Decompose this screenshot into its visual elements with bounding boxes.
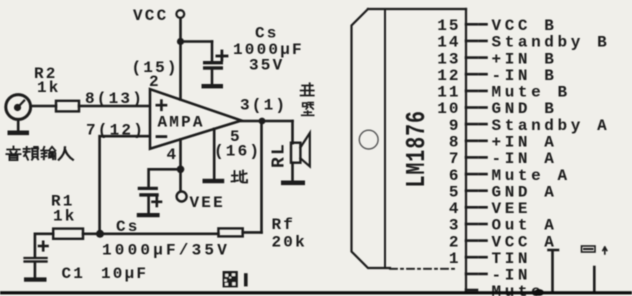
- pin 4 VEE: [449, 200, 531, 218]
- dash-dot package bottom: [390, 268, 458, 270]
- svg-text:15: 15: [437, 17, 460, 35]
- ground (bypass cap): [137, 213, 160, 217]
- svg-text:-IN A: -IN A: [492, 150, 558, 168]
- label 音频输入 (audio input): [6, 147, 72, 161]
- wire jack to R2: [31, 105, 57, 108]
- svg-text:10µF: 10µF: [101, 265, 148, 283]
- svg-text:TIN: TIN: [492, 250, 532, 268]
- svg-text:20k: 20k: [272, 234, 307, 252]
- pin 11 Mute B: [437, 84, 570, 102]
- svg-text:6: 6: [449, 167, 461, 185]
- pin 5 GND line: [213, 129, 216, 179]
- svg-text:10: 10: [437, 100, 460, 118]
- pin 12 -IN B: [437, 67, 557, 85]
- capacitor C1: [23, 242, 47, 278]
- pin row Mute: [466, 283, 544, 296]
- stray blob on border: [534, 289, 544, 296]
- svg-text:LM1876: LM1876: [404, 110, 433, 187]
- pin 7 -IN A: [449, 150, 558, 168]
- resistor R2: [56, 101, 79, 112]
- pin label (15) 2: [132, 59, 179, 91]
- pin 4 line: [179, 140, 182, 191]
- pin row -IN: [466, 267, 531, 285]
- svg-text:+IN A: +IN A: [492, 134, 558, 152]
- wire R1 left to C1: [35, 234, 53, 257]
- pin 9 Standby A: [449, 117, 610, 135]
- wire -IN: [100, 136, 149, 234]
- svg-text:5: 5: [449, 183, 461, 201]
- svg-text:2: 2: [449, 233, 461, 251]
- ground (pin5): [203, 179, 225, 183]
- IC package LM1876 outline: [352, 9, 467, 268]
- svg-text:1000µF/35V: 1000µF/35V: [102, 242, 230, 260]
- pin 6 Mute A: [449, 167, 571, 185]
- VEE terminal: [177, 192, 225, 213]
- svg-text:12: 12: [437, 67, 460, 85]
- svg-text:3: 3: [449, 217, 461, 235]
- svg-text:Mute B: Mute B: [492, 84, 571, 102]
- svg-text:14: 14: [437, 34, 460, 52]
- svg-text:RL: RL: [270, 142, 290, 168]
- speaker RL: [270, 133, 310, 181]
- wire VCC vertical: [179, 18, 182, 99]
- wire bottom R1 to Rf: [83, 233, 218, 236]
- svg-text:Out A: Out A: [492, 217, 558, 235]
- svg-text:7(12): 7(12): [86, 122, 145, 140]
- svg-text:VEE: VEE: [190, 194, 225, 212]
- stray glyph 堡: [302, 103, 314, 116]
- svg-text:3(1): 3(1): [240, 97, 287, 115]
- stray mark T line: [549, 250, 559, 292]
- svg-text:Cs: Cs: [116, 218, 140, 236]
- svg-text:GND A: GND A: [492, 183, 558, 201]
- svg-text:GND B: GND B: [492, 100, 558, 118]
- svg-text:8(13): 8(13): [85, 90, 144, 108]
- label 图1 (figure 1): [223, 271, 248, 287]
- wire feedback vertical: [260, 121, 263, 232]
- svg-text:Standby A: Standby A: [492, 117, 611, 135]
- svg-text:1k: 1k: [53, 208, 77, 226]
- svg-text:(16): (16): [214, 143, 261, 161]
- pin 3 Out A: [449, 217, 558, 235]
- svg-text:VCC: VCC: [133, 7, 168, 25]
- label C1 10uF: [62, 265, 149, 283]
- svg-text:VCC A: VCC A: [492, 233, 558, 251]
- pin label 5 (16): [214, 128, 261, 161]
- pin 14 Standby B: [437, 34, 610, 52]
- svg-text:-IN B: -IN B: [492, 67, 558, 85]
- svg-text:Cs: Cs: [255, 25, 279, 43]
- svg-text:Mute A: Mute A: [492, 167, 571, 185]
- svg-text:C1: C1: [62, 265, 86, 283]
- wire to Cs top: [181, 40, 213, 43]
- pin 5 GND A: [449, 183, 558, 201]
- resistor Rf: [218, 216, 307, 252]
- svg-text:4: 4: [449, 200, 461, 218]
- pin bracket line: [465, 9, 467, 291]
- label R2 1k: [34, 65, 61, 97]
- pin 2 VCC A: [449, 233, 558, 251]
- capacitor C bypass: [138, 187, 161, 213]
- wire R2 to +IN: [79, 105, 149, 108]
- svg-text:11: 11: [437, 84, 460, 102]
- svg-text:1k: 1k: [37, 79, 61, 97]
- op-amp U1 AMPA: [150, 89, 241, 149]
- pin 1 +IN: [449, 250, 531, 268]
- ground (Cs top): [202, 84, 224, 88]
- node feedback junction: [96, 230, 104, 238]
- wire output: [241, 120, 292, 123]
- value label Cs 1000uF 35V: [233, 25, 304, 75]
- pin 13 +IN B: [437, 50, 557, 68]
- svg-text:13: 13: [437, 50, 460, 68]
- input jack J1: [6, 95, 31, 131]
- stray mark box icon: [582, 246, 596, 252]
- wire junction to bypass cap: [149, 169, 181, 187]
- svg-text:1: 1: [449, 250, 461, 268]
- pin 15 VCC B: [437, 17, 557, 35]
- svg-text:VCC B: VCC B: [492, 17, 558, 35]
- svg-text:8: 8: [449, 134, 461, 152]
- svg-text:Standby B: Standby B: [492, 34, 611, 52]
- node output junction: [259, 118, 266, 125]
- node pin4 junction: [177, 166, 185, 174]
- bottom border line: [0, 291, 632, 294]
- VCC terminal: [133, 7, 184, 25]
- node VCC junction: [177, 38, 184, 45]
- pin 10 GND B: [437, 100, 557, 118]
- capacitor Cs top: [203, 42, 227, 85]
- svg-text:4: 4: [167, 146, 179, 164]
- svg-text:+IN B: +IN B: [492, 50, 558, 68]
- svg-text:35V: 35V: [249, 57, 284, 75]
- ground (input): [8, 131, 30, 136]
- svg-text:9: 9: [449, 117, 461, 135]
- ground (speaker): [281, 181, 305, 186]
- resistor R1: [51, 193, 83, 239]
- svg-text:VEE: VEE: [492, 200, 532, 218]
- svg-text:Rf: Rf: [272, 216, 296, 234]
- stray glyph 丑: [301, 83, 314, 95]
- wire to speaker: [291, 121, 294, 143]
- stray mark line 2: [593, 267, 596, 292]
- label 地 (ground): [232, 171, 248, 183]
- svg-text:7: 7: [449, 150, 461, 168]
- svg-text:-IN: -IN: [492, 267, 532, 285]
- ground (C1): [24, 277, 47, 281]
- pin 8 +IN A: [449, 134, 558, 152]
- svg-text:AMPA: AMPA: [158, 114, 205, 132]
- label Cs 1000uF/35V: [102, 218, 230, 260]
- stray mark arrow: [603, 247, 607, 254]
- wire Rf to feedback: [243, 231, 262, 234]
